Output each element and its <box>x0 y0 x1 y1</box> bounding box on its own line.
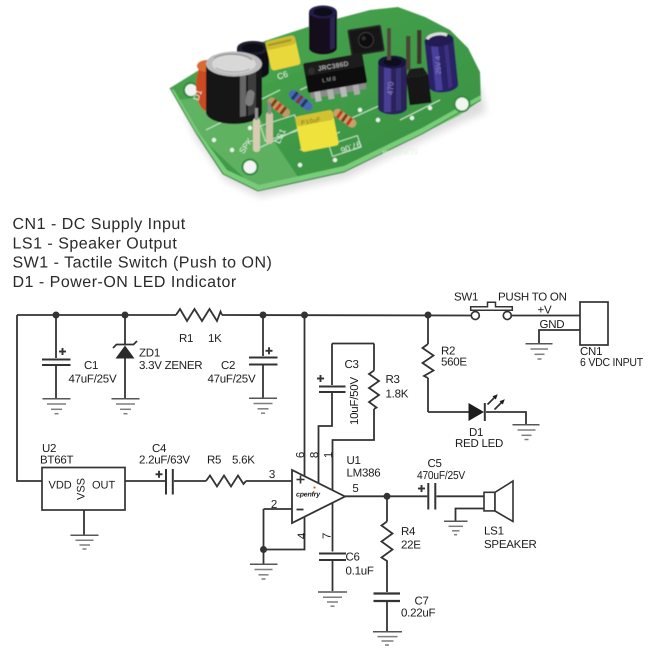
silkscreen text <box>191 69 418 158</box>
svg-text:1: 1 <box>323 452 335 458</box>
node pin2-pin4 junction <box>260 546 267 553</box>
legend text block <box>13 216 273 291</box>
capacitor C1 <box>42 315 71 398</box>
op-amp U1 triangle <box>292 470 345 523</box>
big electrolytic capacitor <box>206 64 262 124</box>
resistor R4 <box>382 496 393 592</box>
svg-text:VDD: VDD <box>49 480 72 492</box>
wire pin4 to ground junction <box>264 517 305 550</box>
wire pin7 down <box>332 503 334 552</box>
ground below pin2/pin4 <box>250 564 278 579</box>
navy electrolytic cap mid-right <box>378 62 407 115</box>
svg-text:C6: C6 <box>346 552 360 564</box>
ground below C6 <box>318 592 347 606</box>
IC U2 box <box>42 468 125 511</box>
svg-text:VSS: VSS <box>76 478 88 500</box>
resistor R3 <box>333 344 380 491</box>
wire R2 to LED <box>428 411 469 413</box>
mounting hole left <box>184 83 198 97</box>
speaker LS1 <box>456 481 514 522</box>
svg-text:LS1: LS1 <box>484 526 504 538</box>
op-amp plus input mark <box>297 476 305 484</box>
svg-text:5: 5 <box>352 483 358 495</box>
board light sheen <box>178 95 300 191</box>
svg-text:LS1 - Speaker Output: LS1 - Speaker Output <box>13 235 178 252</box>
svg-text:10uF/50V: 10uF/50V <box>349 377 361 425</box>
svg-text:8: 8 <box>309 452 321 458</box>
tactile switch <box>347 25 385 57</box>
orange capacitor behind big cap <box>196 61 218 111</box>
node pin6 junction <box>301 312 308 319</box>
wire pin2 input <box>264 508 293 510</box>
svg-text:BT66T: BT66T <box>40 455 73 467</box>
svg-text:SW1: SW1 <box>454 292 478 304</box>
svg-text:1.8K: 1.8K <box>386 389 409 401</box>
svg-text:SW1 - Tactile Switch (Push to: SW1 - Tactile Switch (Push to ON) <box>13 255 273 272</box>
svg-text:SPEAKER: SPEAKER <box>484 539 537 551</box>
wire output pin5 <box>345 495 427 497</box>
wire left rail <box>17 315 42 481</box>
op-amp minus input mark <box>297 509 304 511</box>
node C2 junction <box>260 312 267 319</box>
svg-text:D1 - Power-ON LED Indicator: D1 - Power-ON LED Indicator <box>13 274 237 291</box>
node R2 junction <box>425 312 432 319</box>
svg-text:LM386: LM386 <box>347 468 381 480</box>
ground below C2 <box>249 398 277 413</box>
svg-text:+V: +V <box>538 305 552 317</box>
wire top rail right segment <box>222 314 471 317</box>
SCHEMATIC LABELS <box>40 292 643 620</box>
mounting hole bottom <box>243 160 258 175</box>
ground below CN1 gnd <box>526 344 553 359</box>
svg-text:2: 2 <box>271 499 277 511</box>
svg-text:C1: C1 <box>84 360 98 372</box>
svg-text:47uF/25V: 47uF/25V <box>69 374 117 386</box>
ground below LED <box>513 425 540 440</box>
resistor R2 <box>423 315 434 412</box>
node R4 junction <box>384 493 391 500</box>
svg-text:PUSH TO ON: PUSH TO ON <box>498 292 567 304</box>
beige standoff pins <box>253 118 260 152</box>
yellow box capacitor 2 <box>295 110 339 153</box>
svg-text:22E: 22E <box>401 540 421 552</box>
capacitor C6 <box>319 554 346 592</box>
wire switch to CN1 <box>511 315 580 317</box>
capacitor C2 <box>249 315 278 398</box>
svg-text:OUT: OUT <box>92 480 116 492</box>
svg-text:R5: R5 <box>207 455 221 467</box>
ground below C7 <box>373 632 402 645</box>
resistor blue <box>287 88 315 112</box>
wire top rail left segment <box>17 314 176 316</box>
svg-text:C2: C2 <box>221 360 235 372</box>
wire pin2 down to junction <box>263 509 265 550</box>
wire C3 loop top <box>332 343 374 345</box>
svg-text:25V 4: 25V 4 <box>435 56 443 75</box>
svg-text:U2: U2 <box>42 443 56 455</box>
svg-text:RED LED: RED LED <box>455 438 503 450</box>
solder pads <box>212 84 432 167</box>
PHOTO GROUP <box>170 6 486 198</box>
wire pin6 from rail <box>304 315 306 477</box>
svg-text:6 VDC INPUT: 6 VDC INPUT <box>580 357 643 369</box>
wire U2 out to C4 <box>125 480 165 482</box>
svg-text:6: 6 <box>295 452 307 458</box>
resistor tan center <box>332 107 358 129</box>
capacitor C3 branch <box>317 344 346 484</box>
svg-text:C5: C5 <box>428 458 442 470</box>
node C1 junction <box>53 312 60 319</box>
board shadow <box>180 51 486 197</box>
ground below speaker <box>444 521 468 534</box>
svg-text:7: 7 <box>322 533 334 539</box>
pin near switch <box>387 28 391 60</box>
capacitor C5 <box>418 483 484 510</box>
resistor R5 <box>206 476 246 487</box>
DIP-8 IC LM386 <box>303 53 369 103</box>
ground below ZD1 <box>112 399 140 414</box>
svg-text:cpenfry: cpenfry <box>296 491 321 499</box>
svg-text:C4: C4 <box>152 443 167 455</box>
yellow box capacitor 1 <box>265 35 301 71</box>
svg-text:0.22uF: 0.22uF <box>401 608 436 620</box>
ground below U2 <box>71 535 99 549</box>
svg-text:47uF/25V: 47uF/25V <box>208 374 256 386</box>
wire U2 ground <box>83 510 85 535</box>
TO-92 transistor <box>405 67 431 105</box>
ground below C1 <box>43 399 71 414</box>
svg-text:C7: C7 <box>415 596 429 608</box>
svg-text:470uF/25V: 470uF/25V <box>417 470 466 482</box>
svg-text:3.3V ZENER: 3.3V ZENER <box>139 360 202 372</box>
tall navy cap top-center <box>309 12 337 55</box>
pcb board <box>170 7 481 191</box>
switch SW1 <box>471 302 513 319</box>
svg-text:R3: R3 <box>386 374 400 386</box>
header pins dark right <box>406 36 411 70</box>
svg-text:ZD1: ZD1 <box>139 348 160 360</box>
resistor tan left <box>266 96 292 119</box>
silkscreen traces <box>206 60 455 156</box>
svg-text:U1: U1 <box>347 455 361 467</box>
svg-text:1K: 1K <box>208 333 222 345</box>
svg-text:0.1uF: 0.1uF <box>346 566 374 578</box>
svg-text:R1: R1 <box>179 333 193 345</box>
zener diode ZD1 <box>113 315 137 398</box>
mounting hole right <box>455 97 470 112</box>
wire pin3 input <box>246 480 292 482</box>
connector CN1 box <box>580 302 608 345</box>
svg-text:GND: GND <box>540 319 565 331</box>
capacitor C4 <box>156 469 207 495</box>
resistor R1 <box>176 309 222 321</box>
small black cap behind big cap <box>237 48 269 79</box>
svg-text:3: 3 <box>269 469 275 481</box>
navy electrolytic cap far right <box>424 32 459 94</box>
svg-text:5.6K: 5.6K <box>232 455 255 467</box>
svg-text:R4: R4 <box>401 526 416 538</box>
svg-text:2.2uF/63V: 2.2uF/63V <box>139 455 190 467</box>
LED D1 <box>469 394 527 424</box>
svg-text:560E: 560E <box>441 357 467 369</box>
svg-text:470: 470 <box>386 81 396 95</box>
wire junction to ground <box>263 550 265 564</box>
svg-text:C3: C3 <box>345 359 359 371</box>
pcb bottom side edge light strip <box>170 88 481 191</box>
node ZD1 junction <box>122 312 129 319</box>
capacitor C7 <box>374 594 401 632</box>
wire GND from CN1 <box>539 330 580 343</box>
svg-text:CN1 - DC Supply Input: CN1 - DC Supply Input <box>13 216 186 233</box>
svg-text:4: 4 <box>297 532 309 539</box>
